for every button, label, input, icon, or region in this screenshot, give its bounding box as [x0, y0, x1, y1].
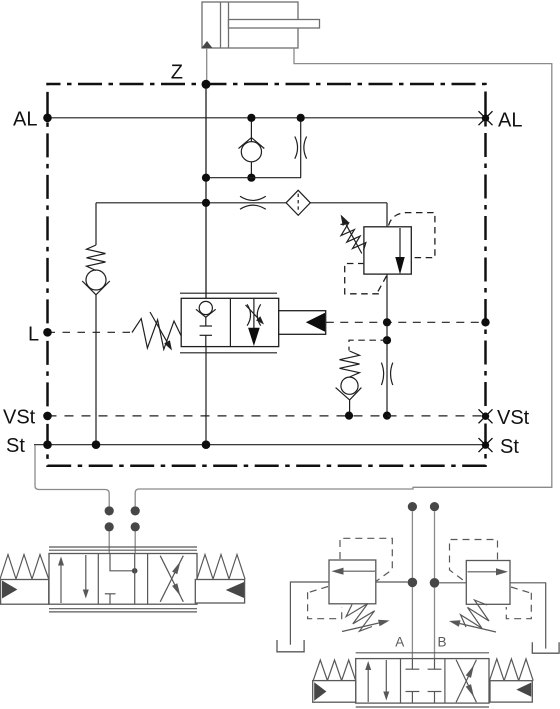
label A: [395, 635, 404, 650]
wire rod side to right edge and down: [135, 48, 552, 506]
node VSt left port: [43, 412, 52, 421]
node A junction: [408, 578, 418, 588]
wire cylinder to Z port: [206, 48, 208, 84]
pilot RVA drain (dashed): [308, 587, 342, 619]
wire RV1 outlet: [386, 274, 388, 416]
wire L dashed: [48, 331, 135, 333]
node Z port: [202, 80, 211, 89]
FC left position (seat check): [196, 301, 216, 346]
relief valve RVA body: [329, 560, 376, 604]
tank RVA: [277, 640, 304, 652]
node St left port: [43, 440, 52, 449]
node CV1 top: [247, 114, 255, 122]
spring RVB: [461, 600, 490, 628]
svg-text:VSt: VSt: [3, 407, 36, 429]
label L: [28, 324, 39, 346]
adjustment arrow FC: [150, 312, 172, 351]
wire supply horizontal: [96, 202, 387, 204]
filter F1: [286, 190, 310, 215]
adjustment arrow RV1: [341, 215, 362, 254]
pilot wire dashed to border: [326, 321, 486, 323]
orifice OR3: [381, 363, 392, 385]
label St left: [6, 435, 25, 457]
node AL left port: [43, 114, 52, 123]
wire VSt dashed: [48, 415, 486, 417]
label St right: [500, 436, 519, 458]
label VSt right: [497, 407, 530, 429]
svg-text:AL: AL: [498, 110, 522, 132]
wire main to St: [205, 347, 207, 445]
throttle OR2: [240, 196, 266, 209]
FC pilot actuator: [279, 311, 326, 335]
node VSt right port (plugged): [479, 409, 493, 423]
node bypass-main junction: [202, 174, 210, 182]
node pilot-RV1 junction: [383, 318, 391, 326]
FC right position (variable throttle): [246, 298, 265, 346]
wire RVB to node B: [439, 582, 466, 584]
coupling B lower: [131, 522, 140, 531]
node AL right port (plugged): [479, 111, 493, 125]
spring V1 left: [0, 555, 49, 580]
V1 proportional marks: [49, 547, 197, 612]
check valve CV2 with spring: [82, 203, 110, 445]
wire RVA to node A: [376, 581, 408, 583]
V2 right cell arrows: [456, 660, 476, 702]
node OR1 top: [297, 114, 305, 122]
wire B down 2: [434, 587, 436, 658]
adjustment arrow RVB: [449, 620, 496, 632]
relief valve RV2 (seat type with spring): [336, 351, 362, 416]
spring RVA: [346, 603, 375, 631]
spring V2 right: [490, 659, 534, 681]
pilot cap V1 left: [1, 580, 49, 605]
label B: [437, 635, 446, 650]
node B junction: [430, 578, 440, 588]
coupling B upper: [131, 506, 140, 515]
spring FC: [132, 319, 181, 350]
pilot cap V2 left: [313, 681, 356, 703]
svg-text:B: B: [437, 635, 446, 650]
coupling A upper: [105, 506, 114, 515]
cylinder (single-acting with rod): [202, 2, 320, 48]
V1 left cell arrows: [58, 555, 89, 603]
V2 left cell arrows: [365, 660, 389, 702]
wire AL horizontal: [48, 117, 486, 119]
V1 body: [49, 554, 197, 605]
pilot line RV1 bottom (dashed): [345, 264, 387, 294]
node supply-main junction: [202, 199, 210, 207]
pilot RVB top (dashed): [450, 540, 498, 582]
pilot RVB drain (dashed): [506, 587, 531, 619]
node pilot border port: [481, 318, 489, 326]
V2 centre cell (all ports blocked): [406, 659, 442, 704]
svg-text:AL: AL: [13, 109, 37, 131]
V2 proportional marks: [356, 653, 489, 707]
coupling A lower: [105, 522, 114, 531]
svg-text:L: L: [28, 324, 39, 346]
node CV1 bottom: [247, 174, 255, 182]
label Z: [171, 62, 183, 84]
spring V1 right: [197, 555, 245, 580]
check valve CV1: [239, 118, 265, 178]
svg-text:Z: Z: [171, 62, 183, 84]
label AL right: [498, 110, 522, 132]
pilot wire to RV2 (dashed): [349, 340, 387, 350]
pilot RVA top (dashed): [340, 538, 392, 581]
pilot cap V2 right: [490, 681, 532, 702]
wire coupling A to valve: [108, 532, 110, 555]
wire supply to RV1: [386, 203, 388, 227]
wire A down: [411, 511, 413, 578]
stub port B: [430, 502, 439, 511]
V1 right cell arrows: [160, 556, 183, 602]
wire RVB drain: [510, 583, 546, 649]
manifold boundary (dash-dot box): [48, 84, 486, 466]
pilot line RV1 top (dashed): [389, 213, 435, 258]
svg-text:St: St: [6, 435, 25, 457]
wire coupling B to valve: [134, 532, 136, 555]
wire St to pilot valve port A: [35, 445, 109, 506]
relief valve RV1 body: [364, 227, 411, 275]
label AL left: [13, 109, 37, 131]
orifice OR1: [295, 118, 307, 178]
adjustment arrow RVA: [342, 620, 390, 632]
node RV2 outlet: [345, 412, 353, 420]
V1 centre cell: [105, 554, 138, 605]
node St-main junction: [202, 440, 211, 449]
wire Z main vertical: [205, 84, 207, 302]
tank RVB: [532, 642, 559, 653]
wire St: [34, 444, 486, 446]
spring RV1: [341, 223, 366, 250]
flow control valve FC frame: [180, 293, 279, 353]
label VSt left: [3, 407, 36, 429]
wire bypass horizontal: [206, 177, 301, 179]
V2 body: [356, 659, 489, 704]
cylinder port arrow: [202, 41, 213, 48]
spring V2 left: [313, 660, 356, 681]
node L port: [43, 328, 52, 337]
svg-text:VSt: VSt: [497, 407, 530, 429]
node St right port (plugged): [479, 438, 493, 452]
wire B down: [434, 511, 436, 578]
relief valve RVB body: [466, 561, 510, 605]
node St-CV2 junction: [92, 440, 101, 449]
pilot cap V1 right: [195, 580, 244, 604]
wire RVA drain: [290, 582, 329, 645]
stub port A: [408, 502, 417, 511]
wire A down 2: [411, 587, 413, 659]
node OR3 outlet: [383, 412, 391, 420]
svg-text:St: St: [500, 436, 519, 458]
node RV2 branch: [383, 336, 391, 344]
svg-text:A: A: [395, 635, 404, 650]
